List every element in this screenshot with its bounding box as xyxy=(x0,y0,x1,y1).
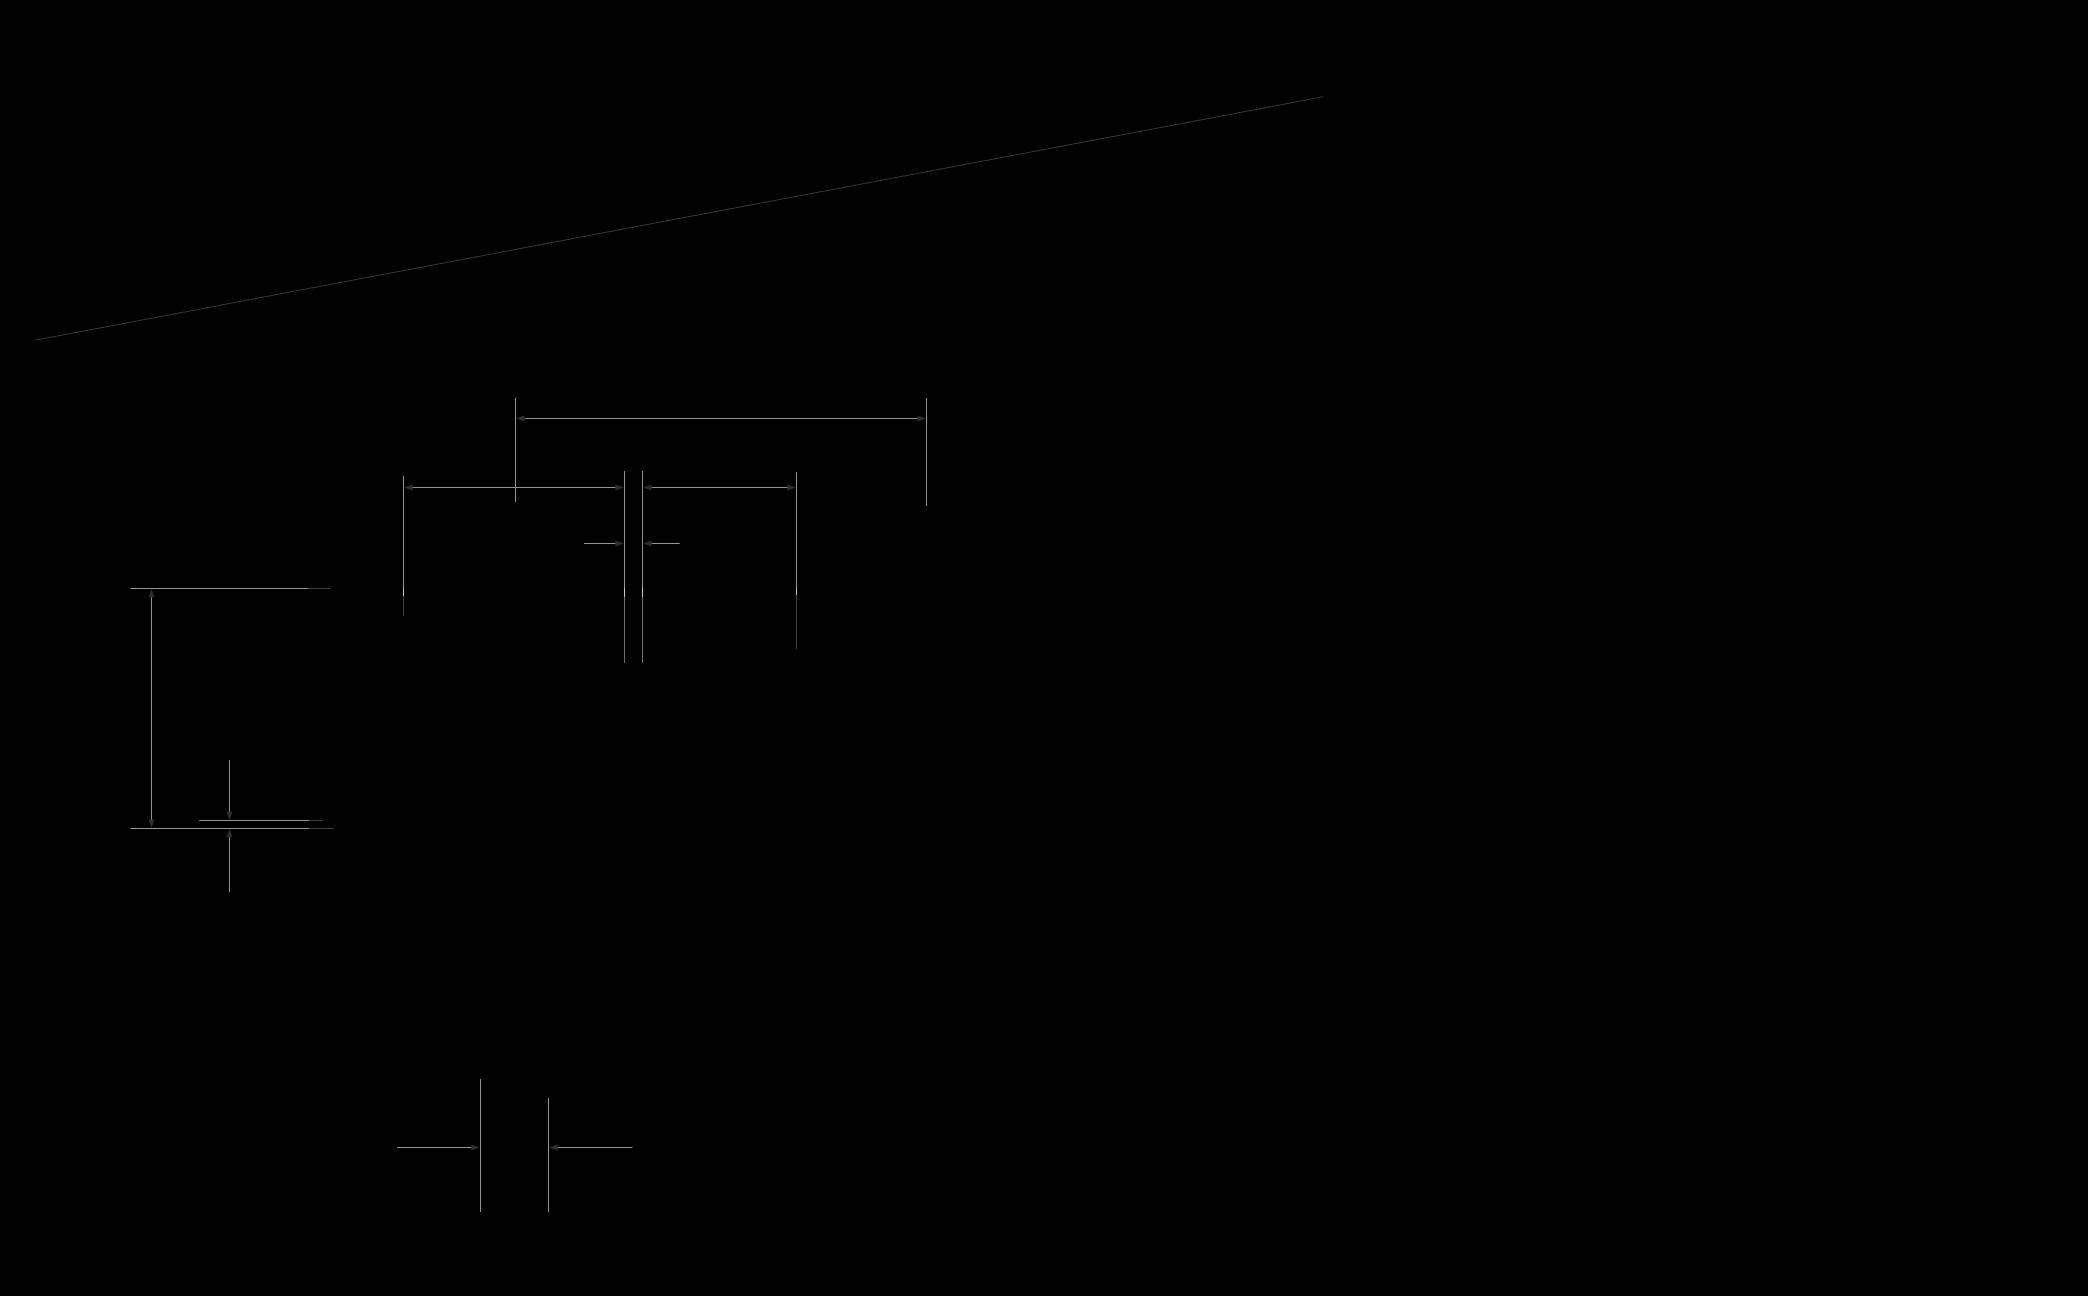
dimension D2 extension line left dark tail xyxy=(403,596,405,616)
plate edge right lower xyxy=(642,597,644,663)
dimension D2 arrowhead inner left xyxy=(615,485,623,491)
dimension D3 bottom extension line bright xyxy=(131,828,310,830)
plate edge left tick xyxy=(624,588,626,597)
dimension D2 line right span xyxy=(652,487,788,489)
dimension D2 extension line right bright xyxy=(796,472,798,588)
dimension D1 extension line left xyxy=(515,398,517,502)
plate edge left bright xyxy=(624,471,626,588)
gap dimension G2 arrowhead down xyxy=(227,812,233,820)
gap dimension G1 arrowhead left xyxy=(615,541,623,547)
dimension D2 extension line right tick xyxy=(796,588,798,595)
plate top edge line dark tail xyxy=(309,820,323,822)
dimension D2 arrowhead inner right xyxy=(643,485,651,491)
gap dimension G1 tail left xyxy=(584,543,616,545)
dimension D3 top extension line dark tail xyxy=(309,588,331,590)
dimension D3 top extension line bright xyxy=(131,588,309,590)
dimension D2 line left span xyxy=(412,487,615,489)
plate edge right tick xyxy=(642,588,644,597)
dimension D2 extension line right dark tail xyxy=(796,595,798,649)
gap dimension G3 tail left xyxy=(397,1147,472,1149)
dimension D1 arrowhead left xyxy=(516,416,524,422)
dimension D2 extension line left bright xyxy=(403,476,405,588)
plate top edge line bright xyxy=(199,820,309,822)
dimension D1 extension line right xyxy=(926,398,928,506)
gap dimension G1 tail right xyxy=(652,543,680,545)
plate edge left lower xyxy=(624,597,626,663)
gap dimension G3 left edge line xyxy=(480,1079,482,1212)
dimension D2 arrowhead far right xyxy=(787,485,795,491)
plate edge right bright xyxy=(642,471,644,588)
dimension D3 line xyxy=(151,597,153,819)
dimension D3 arrowhead top xyxy=(149,589,155,597)
gap dimension G1 arrowhead right xyxy=(643,541,651,547)
dimension D2 extension line left tick xyxy=(403,588,405,596)
gap dimension G3 tail right xyxy=(558,1147,633,1149)
gap dimension G2 upper tail xyxy=(229,760,231,812)
dimension D1 arrowhead right xyxy=(917,416,925,422)
dimension D1 line xyxy=(525,418,918,420)
gap dimension G3 right edge line xyxy=(548,1098,550,1212)
gap dimension G2 lower tail xyxy=(229,837,231,892)
gap dimension G2 arrowhead up xyxy=(227,829,233,837)
gap dimension G3 arrowhead right xyxy=(549,1145,557,1151)
gap dimension G3 arrowhead left xyxy=(471,1145,479,1151)
dimension D3 bottom extension line dark tail xyxy=(309,828,334,830)
dimension D3 arrowhead bottom xyxy=(149,820,155,828)
diagonal object line xyxy=(35,97,1324,341)
dimension D2 arrowhead far left xyxy=(404,485,412,491)
